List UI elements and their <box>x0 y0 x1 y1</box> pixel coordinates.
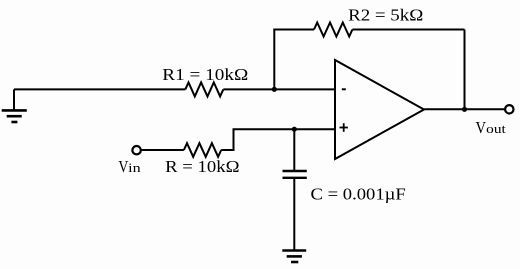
resistor R <box>184 143 221 157</box>
capacitor C <box>283 129 307 250</box>
svg-text:R1 = 10kΩ: R1 = 10kΩ <box>162 65 248 84</box>
label R1 = 10kΩ <box>162 65 248 84</box>
op-amp U1 <box>335 60 424 159</box>
label Vin <box>118 157 141 176</box>
resistor R2 <box>314 23 352 37</box>
label R2 = 5kΩ <box>348 5 423 24</box>
svg-text:R = 10kΩ: R = 10kΩ <box>165 157 239 176</box>
svg-text:V: V <box>476 118 487 137</box>
svg-text:R2 = 5kΩ: R2 = 5kΩ <box>348 5 423 24</box>
svg-text:C = 0.001µF: C = 0.001µF <box>311 185 406 204</box>
node output junction <box>462 107 467 112</box>
wire feedback top right <box>352 29 464 31</box>
wire Vin to R <box>141 149 184 151</box>
svg-text:in: in <box>128 160 141 175</box>
wire feedback left vertical <box>273 30 275 90</box>
ground left <box>2 89 27 122</box>
wire R to op-amp noninverting input <box>221 129 334 150</box>
wire output <box>424 108 504 110</box>
wire feedback top left <box>273 29 314 31</box>
svg-text:out: out <box>486 121 506 136</box>
ground bottom <box>282 251 306 263</box>
wire feedback right vertical <box>464 30 466 110</box>
node junction feedback / inverting input <box>272 87 277 92</box>
wire R1 to op-amp inverting input <box>223 88 334 90</box>
terminal Vout open circle <box>505 105 513 113</box>
label C = 0.001µF <box>311 185 406 204</box>
label R = 10kΩ <box>165 157 239 176</box>
wire left horizontal from ground to R1 <box>14 88 185 90</box>
resistor R1 <box>185 82 223 96</box>
label Vout <box>476 118 507 137</box>
terminal Vin open circle <box>132 146 140 154</box>
node junction capacitor / noninverting input <box>292 127 297 132</box>
